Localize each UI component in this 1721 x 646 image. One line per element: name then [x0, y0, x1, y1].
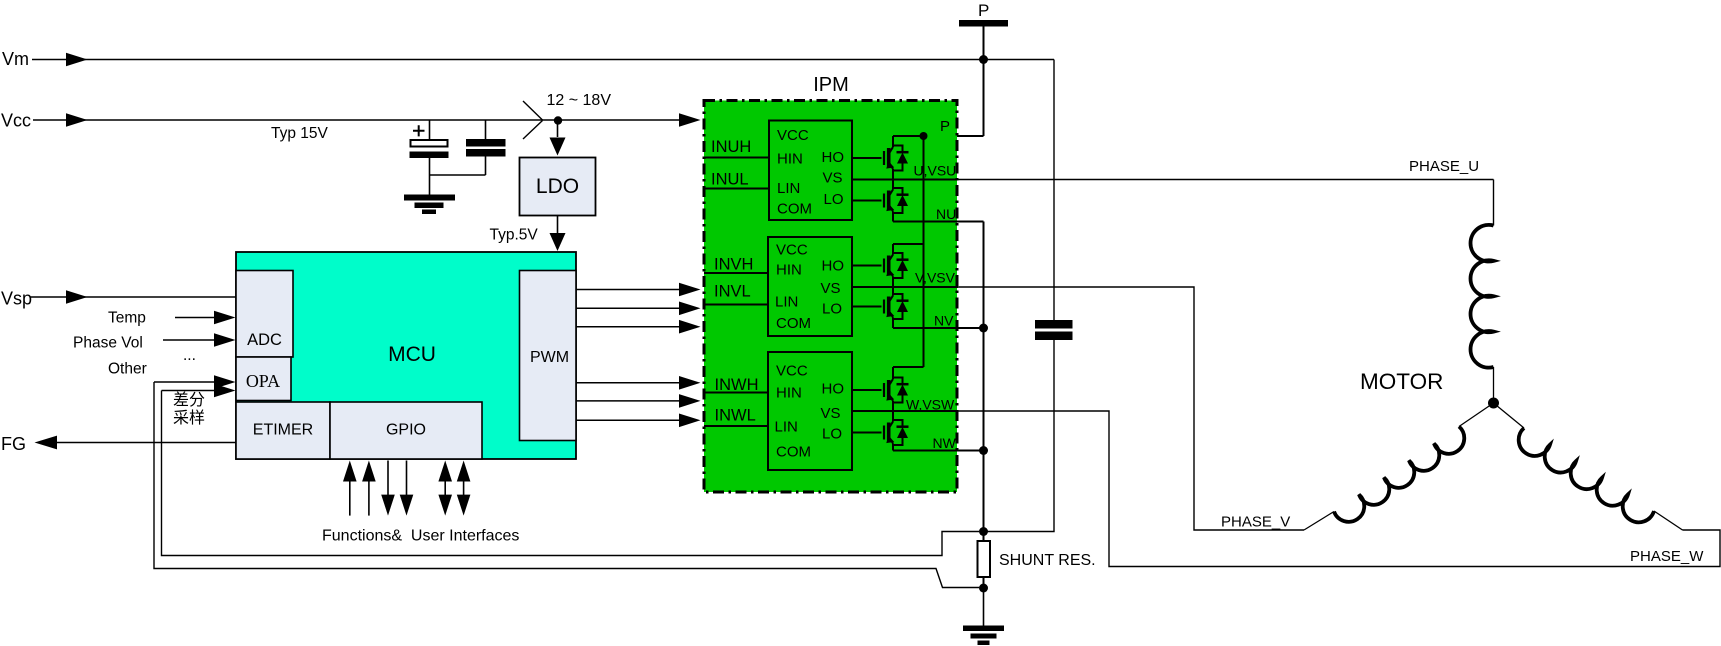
wire Vsp [30, 296, 236, 298]
arrow GPIO bidir up 2 [457, 461, 471, 482]
wire V upper emitter to mid [892, 277, 894, 288]
wire P into IPM [923, 135, 984, 137]
wire W lower collector [892, 411, 894, 422]
wire W lower emitter to bottom [892, 444, 894, 451]
wire shunt bottom [983, 577, 985, 588]
gate driver W box [768, 352, 852, 470]
transistor QVH with diode [853, 253, 909, 278]
svg-text:Functions& User Interfaces: Functions& User Interfaces [322, 528, 519, 545]
wire Vcc horizontal [33, 119, 679, 121]
junction P bus [920, 132, 928, 140]
junction NW [979, 446, 988, 455]
arrow Temp into ADC [214, 311, 236, 325]
arrow PWM output 6 [679, 414, 701, 428]
svg-text:...: ... [183, 347, 196, 364]
gate driver U box [769, 121, 852, 221]
wire winding U to center [1493, 367, 1495, 399]
junction shunt top [979, 527, 988, 536]
capacitor C1 bottom plate [410, 152, 449, 159]
wire NW rail [893, 450, 984, 452]
wire PWM output 1 [577, 289, 680, 291]
wire C2 top stub [485, 120, 487, 139]
svg-text:Phase Vol: Phase Vol [73, 335, 143, 352]
arrow GPIO bidir down 2 [457, 495, 471, 516]
wire INVH [704, 272, 768, 274]
svg-text:INVL: INVL [714, 283, 751, 301]
wire OPA sense upper [154, 381, 216, 383]
svg-text:LO: LO [824, 191, 844, 208]
arrow GPIO up 1 [343, 461, 357, 482]
wire shunt to ground [983, 588, 985, 626]
svg-text:HIN: HIN [776, 385, 802, 402]
svg-text:OPA: OPA [246, 371, 280, 391]
svg-text:12 ~ 18V: 12 ~ 18V [547, 92, 612, 109]
wire LDO output [557, 216, 559, 234]
wire W upper emitter to mid [892, 401, 894, 411]
arrow PWM output 1 [679, 283, 701, 297]
wire W top rail [893, 366, 924, 368]
wire shunt sense outer (bottom) [154, 382, 979, 588]
svg-text:SHUNT RES.: SHUNT RES. [999, 552, 1096, 569]
svg-text:INWL: INWL [715, 407, 756, 425]
wire winding W to center [1494, 403, 1525, 428]
svg-text:Vm: Vm [2, 49, 29, 69]
svg-text:COM: COM [776, 315, 811, 332]
svg-text:Other: Other [108, 361, 147, 378]
junction Vm-P [979, 55, 988, 64]
wire INVL [704, 304, 768, 306]
svg-text:LO: LO [822, 301, 842, 318]
gate driver V box [768, 237, 852, 336]
transistor QVL with diode [853, 294, 909, 319]
svg-text:ADC: ADC [247, 331, 282, 349]
svg-text:LIN: LIN [775, 294, 798, 311]
inductor motor winding V [1334, 427, 1464, 522]
wire PWM output 4 [577, 382, 680, 384]
svg-text:FG: FG [1, 434, 26, 454]
wire V upper collector [892, 244, 894, 255]
MCU ETIMER sub-block [236, 402, 330, 459]
capacitor C1 plus sign [413, 125, 425, 136]
inductor motor winding U [1471, 225, 1494, 368]
wire PWM output 2 [577, 307, 680, 309]
svg-text:LDO: LDO [536, 175, 579, 198]
transistor QUL with diode [853, 188, 909, 213]
capacitor C3 bottom plate [1035, 332, 1073, 341]
wire shunt sense inner (top) [162, 391, 980, 556]
arrow PWM output 3 [679, 320, 701, 334]
wire W phase inside IPM [853, 410, 959, 412]
svg-text:HO: HO [822, 149, 845, 166]
svg-text:V,VSV: V,VSV [915, 270, 956, 286]
arrow sense upper into OPA [214, 375, 236, 389]
wire C1 top stub [429, 120, 431, 140]
wire C1 bottom stub [429, 158, 431, 195]
capacitor C3 top plate [1035, 320, 1073, 329]
wire PWM output 5 [577, 400, 680, 402]
wire PHASE_U down [1493, 180, 1495, 226]
capacitor C2 bottom plate [466, 149, 506, 157]
svg-text:HIN: HIN [776, 262, 802, 279]
MCU PWM sub-block [520, 271, 577, 441]
junction Vcc-LDO [554, 116, 562, 124]
svg-text:NV: NV [934, 313, 954, 329]
svg-text:LIN: LIN [777, 180, 800, 197]
arrow Vcc into IPM [679, 113, 701, 127]
svg-text:采样: 采样 [173, 409, 205, 427]
svg-text:PHASE_U: PHASE_U [1409, 158, 1479, 175]
break mark on Vcc line [523, 101, 543, 139]
svg-text:COM: COM [777, 201, 812, 218]
MCU ADC sub-block [236, 271, 293, 358]
capacitor C1 top plate [411, 140, 448, 147]
svg-text:VS: VS [821, 405, 841, 422]
wire C2 to C1 link [430, 174, 486, 176]
wire Temp [175, 317, 216, 319]
svg-text:Vsp: Vsp [1, 289, 32, 309]
svg-text:INWH: INWH [715, 376, 759, 394]
regulator LDO box [520, 158, 596, 216]
wire GPIO up-arrow 1 [349, 480, 351, 516]
wire V top rail [893, 243, 924, 245]
svg-text:ETIMER: ETIMER [253, 422, 313, 439]
svg-text:INUL: INUL [711, 171, 749, 189]
arrow GPIO down 1 [381, 495, 395, 516]
ground symbol G1 [404, 195, 455, 215]
junction shunt bottom [979, 584, 988, 593]
wire PWM output 6 [577, 419, 680, 421]
junction NV [979, 324, 988, 333]
wire GPIO down-arrow 2 [406, 461, 408, 497]
wire Phase Vol [163, 339, 216, 341]
wire NU rail [893, 221, 984, 223]
svg-text:VCC: VCC [777, 127, 809, 144]
svg-text:LO: LO [822, 426, 842, 443]
svg-text:IPM: IPM [813, 74, 849, 96]
svg-text:差分: 差分 [173, 391, 205, 409]
svg-text:PWM: PWM [530, 349, 569, 366]
wire U top rail [893, 135, 924, 137]
wire W upper collector [892, 367, 894, 379]
svg-text:HIN: HIN [777, 151, 803, 168]
wire U upper collector [892, 136, 894, 147]
wire P terminal vertical [983, 27, 985, 137]
resistor SHUNT RES. [978, 541, 991, 577]
wire V lower collector [892, 287, 894, 296]
wire U phase inside IPM [853, 179, 959, 181]
wire PHASE_W diagonal [1654, 511, 1683, 530]
transistor QUH with diode [853, 146, 909, 171]
MCU GPIO sub-block [330, 402, 482, 459]
svg-text:Typ.5V: Typ.5V [490, 227, 539, 244]
svg-text:Temp: Temp [108, 310, 146, 327]
wire PWM output 3 [577, 326, 680, 328]
arrow Vsp [66, 290, 88, 304]
wire N bus column [983, 222, 985, 542]
svg-text:Typ 15V: Typ 15V [271, 125, 329, 142]
inductor motor winding W [1519, 428, 1654, 522]
arrow FG out [35, 436, 58, 450]
MCU U1 block [236, 252, 576, 459]
svg-text:INUH: INUH [711, 138, 751, 156]
arrow GPIO bidir up 1 [438, 461, 452, 482]
svg-text:NW: NW [933, 435, 957, 451]
arrow PWM output 5 [679, 394, 701, 408]
svg-text:VS: VS [823, 170, 843, 187]
svg-text:GPIO: GPIO [386, 422, 426, 439]
junction motor star point [1488, 398, 1499, 409]
ground symbol G2 [963, 626, 1004, 646]
svg-text:HO: HO [822, 381, 845, 398]
wire winding V to center [1459, 403, 1494, 427]
wire GPIO bidir 2 [463, 478, 465, 498]
svg-text:LIN: LIN [775, 419, 798, 436]
arrow LDO to MCU [550, 233, 566, 251]
wire Vm horizontal [32, 59, 1054, 61]
wire LDO input [557, 120, 559, 137]
svg-text:P: P [940, 118, 950, 135]
wire P bus column [923, 136, 925, 367]
wire GPIO up-arrow 2 [368, 480, 370, 516]
MCU OPA sub-block [236, 357, 291, 401]
transistor QWH with diode [853, 378, 909, 403]
svg-text:U,VSU: U,VSU [914, 163, 957, 179]
arrow GPIO up 2 [362, 461, 376, 482]
arrow sense lower into OPA [214, 384, 236, 398]
wire GPIO down-arrow 1 [387, 461, 389, 497]
transistor QWL with diode [853, 420, 909, 445]
capacitor C2 top plate [466, 139, 506, 147]
wire FG [56, 442, 236, 444]
svg-text:HO: HO [822, 258, 845, 275]
wire C2 bottom stub [485, 157, 487, 176]
svg-text:COM: COM [776, 444, 811, 461]
wire C3 bottom to N bus [984, 340, 1054, 532]
svg-text:NU: NU [936, 206, 956, 222]
svg-text:MOTOR: MOTOR [1360, 369, 1443, 394]
wire U upper emitter to mid [892, 169, 894, 180]
arrow GPIO down 2 [400, 495, 414, 516]
svg-text:P: P [978, 1, 989, 20]
arrow PWM output 2 [679, 302, 701, 316]
arrow GPIO bidir down 1 [438, 495, 452, 516]
P rail terminal bar [959, 20, 1008, 27]
wire INUH [704, 157, 769, 159]
svg-text:INVH: INVH [714, 256, 753, 274]
wire Vm down to bus cap [1053, 60, 1055, 321]
wire GPIO bidir 1 [444, 478, 446, 498]
arrow Phase Vol into ADC [214, 333, 236, 347]
wire V phase inside IPM [853, 286, 959, 288]
wire INUL [704, 188, 769, 190]
svg-text:VCC: VCC [776, 363, 808, 380]
wire PHASE_V path [957, 287, 1304, 530]
wire INWH [704, 392, 768, 394]
wire PHASE_V diagonal [1304, 512, 1334, 531]
svg-text:PHASE_V: PHASE_V [1221, 514, 1290, 531]
IPM module box [704, 101, 957, 493]
arrow Vm [66, 53, 88, 67]
arrow PWM output 4 [679, 376, 701, 390]
wire V lower emitter to bottom [892, 318, 894, 329]
wire INWL [704, 425, 768, 427]
arrow Vcc source [66, 113, 88, 127]
wire NV rail [893, 327, 984, 329]
svg-text:PHASE_W: PHASE_W [1630, 548, 1704, 565]
svg-text:VS: VS [821, 280, 841, 297]
svg-text:Vcc: Vcc [1, 111, 31, 131]
arrow into LDO [550, 138, 566, 156]
wire PHASE_U horizontal [957, 179, 1494, 181]
svg-text:VCC: VCC [776, 242, 808, 259]
wire PHASE_W path [957, 411, 1720, 567]
svg-text:MCU: MCU [388, 343, 436, 366]
wire U lower collector [892, 180, 894, 190]
wire U lower emitter to bottom [892, 212, 894, 222]
wire OPA sense lower [162, 390, 217, 392]
